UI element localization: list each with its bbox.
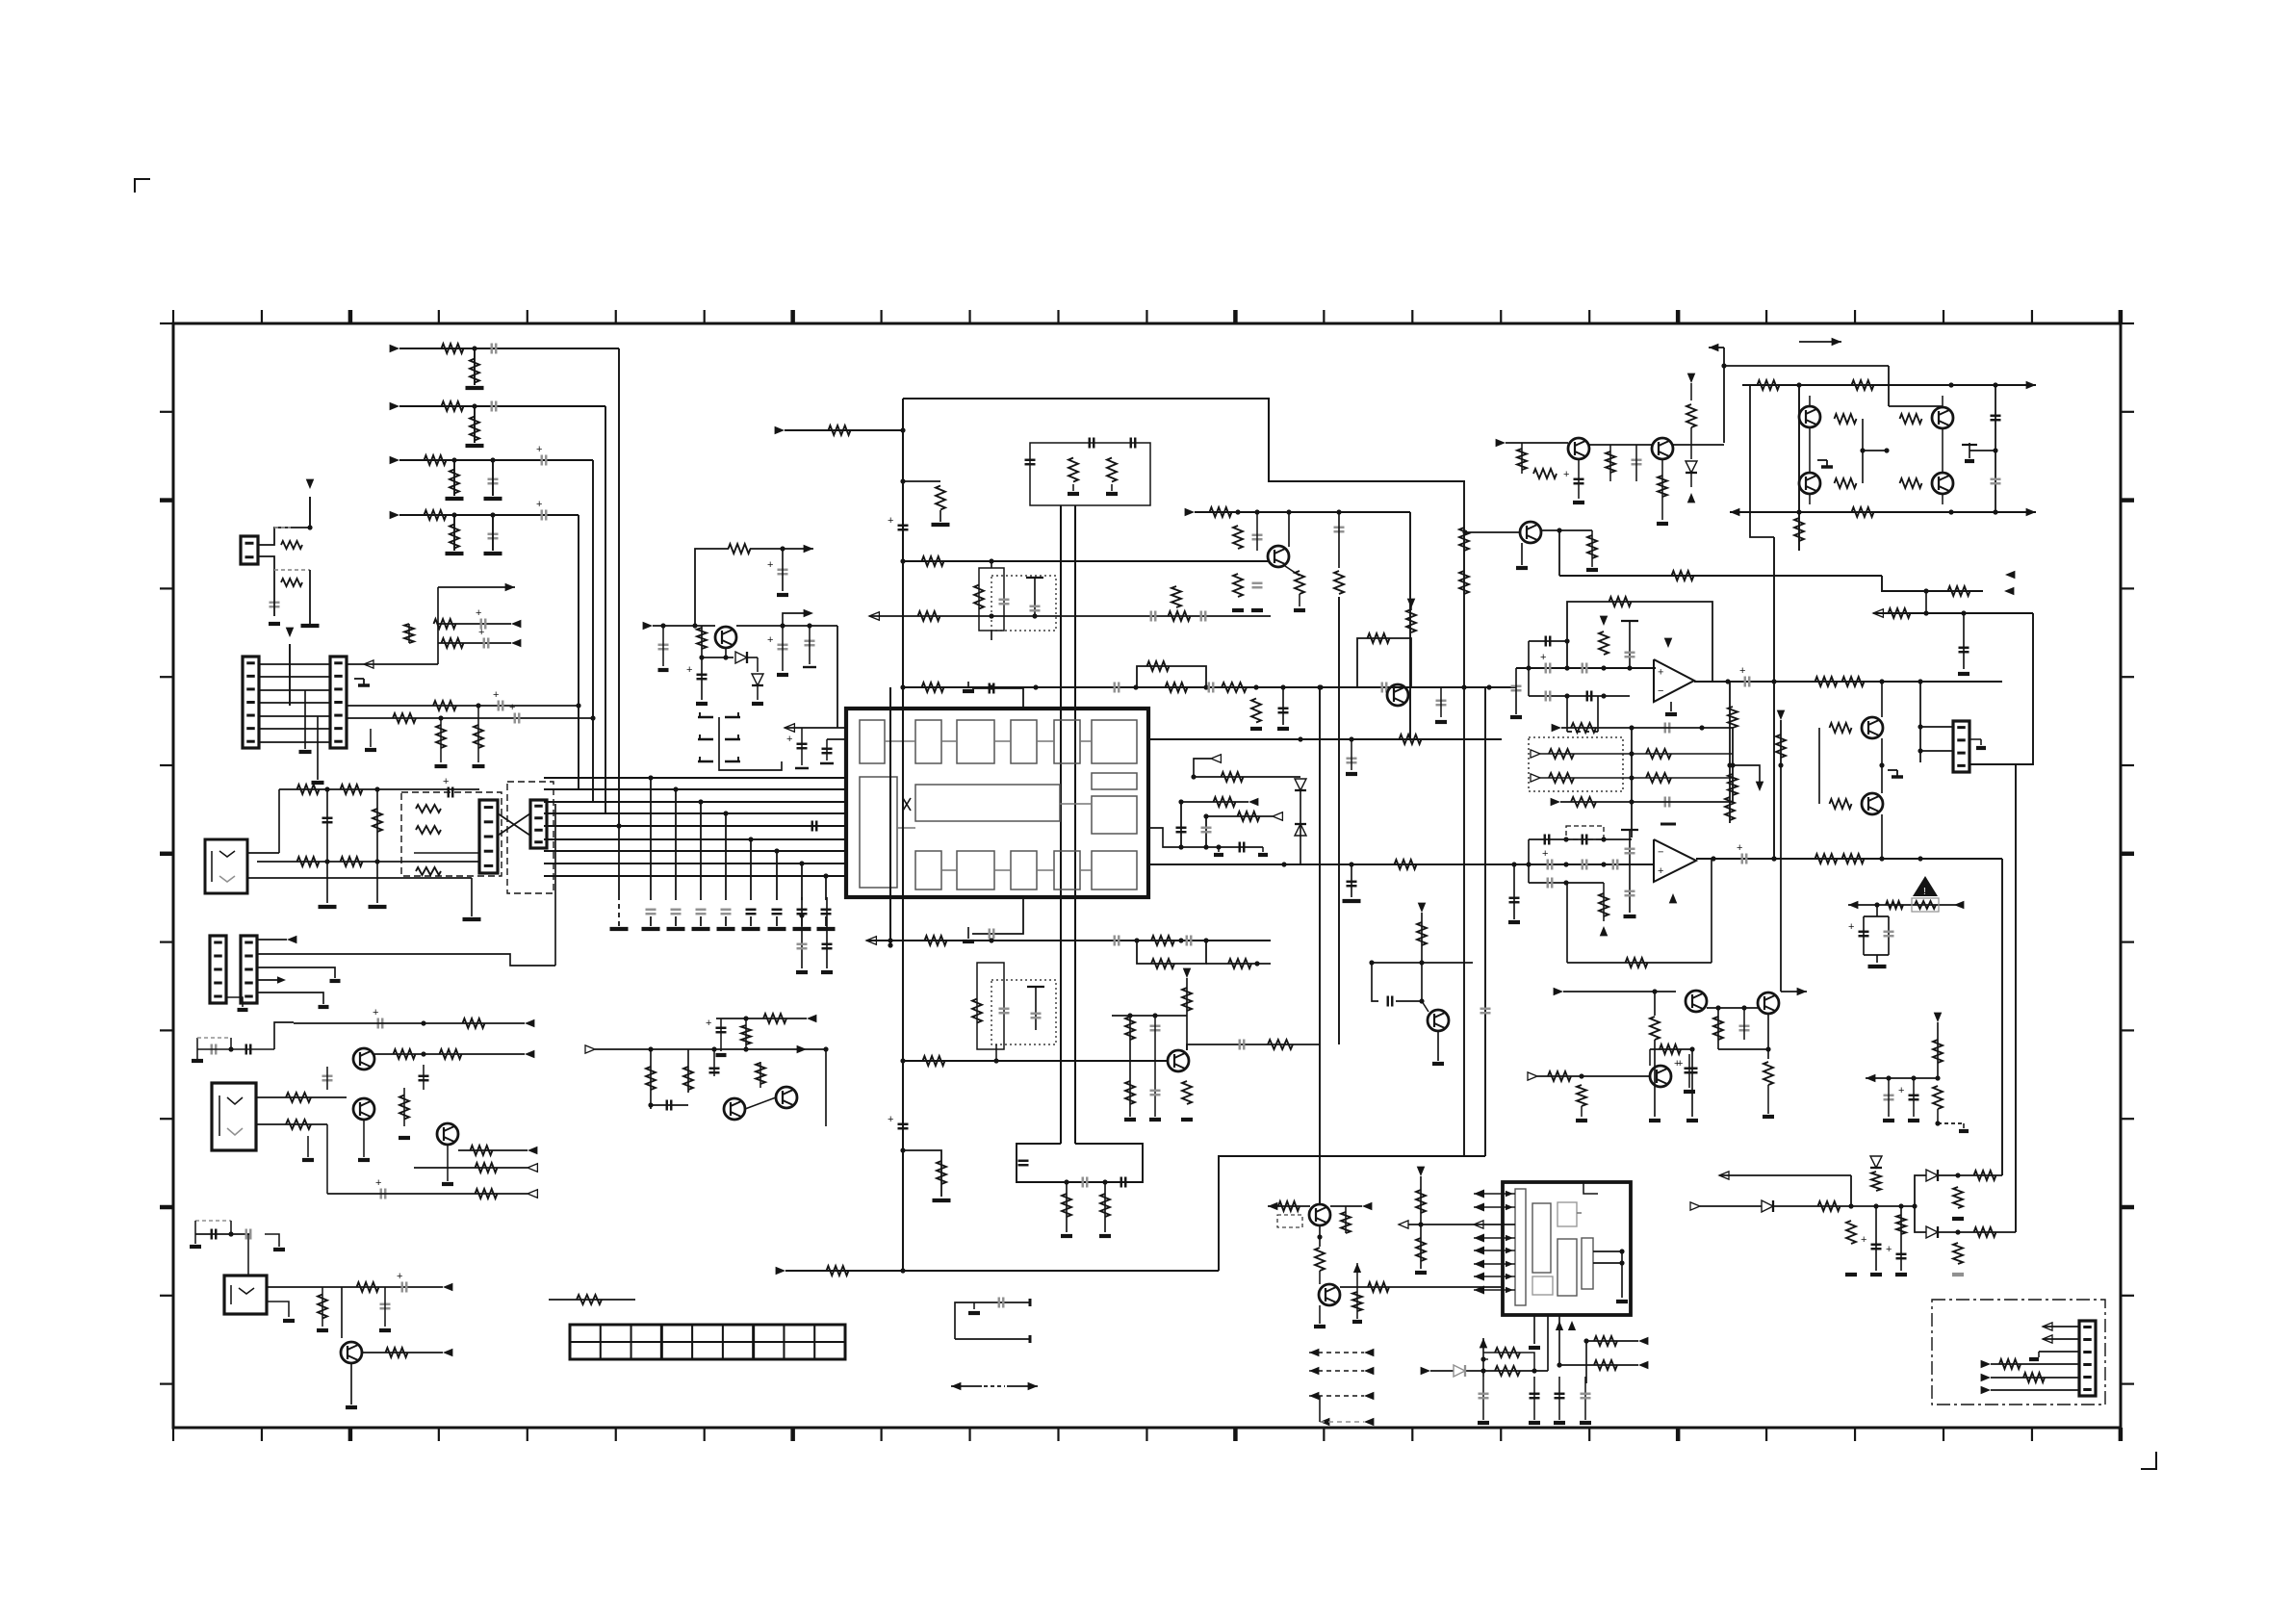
svg-text:+: + (1563, 469, 1569, 480)
svg-text:−: − (1658, 847, 1663, 859)
svg-text:+: + (1658, 667, 1663, 679)
svg-text:!: ! (1923, 887, 1926, 897)
svg-text:+: + (509, 702, 515, 713)
svg-text:−: − (1658, 685, 1663, 697)
svg-text:+: + (1674, 1058, 1680, 1070)
svg-text:+: + (1861, 1234, 1866, 1246)
svg-text:+: + (767, 559, 773, 571)
svg-text:+: + (443, 776, 449, 787)
svg-text:+: + (493, 689, 499, 701)
svg-text:+: + (1739, 665, 1745, 677)
svg-text:+: + (397, 1271, 402, 1282)
svg-text:+: + (888, 515, 893, 527)
svg-text:+: + (706, 1018, 711, 1029)
svg-text:+: + (1898, 1085, 1904, 1096)
svg-text:+: + (478, 627, 484, 638)
svg-text:+: + (1540, 652, 1546, 663)
svg-text:+: + (888, 1114, 893, 1125)
svg-text:+: + (1542, 848, 1548, 860)
svg-text:+: + (373, 1007, 378, 1018)
svg-text:+: + (1848, 921, 1854, 933)
svg-text:+: + (536, 499, 542, 510)
svg-text:+: + (786, 734, 792, 745)
svg-text:+: + (1737, 842, 1742, 854)
svg-text:+: + (476, 607, 481, 619)
svg-text:+: + (375, 1177, 381, 1189)
svg-text:+: + (767, 634, 773, 646)
svg-text:+: + (1658, 865, 1663, 877)
svg-text:+: + (1886, 1244, 1892, 1255)
svg-text:+: + (536, 444, 542, 455)
svg-text:+: + (686, 664, 692, 676)
